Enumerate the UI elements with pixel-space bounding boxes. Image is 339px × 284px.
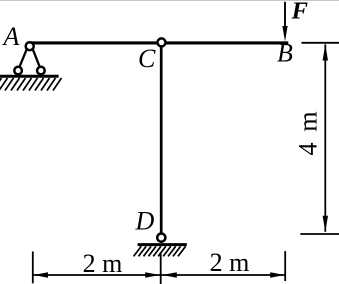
roller circle right at A <box>37 67 45 75</box>
ground hatching at A <box>0 78 62 91</box>
bottom extension tick right <box>284 251 286 281</box>
ground line at D <box>138 243 187 246</box>
svg-text:A: A <box>2 22 20 51</box>
hinge at C <box>158 38 166 46</box>
svg-text:4 m: 4 m <box>293 109 322 155</box>
hinge pin at A <box>26 42 34 50</box>
support link right leg at A <box>33 50 40 67</box>
vertical dimension line 4m <box>324 44 326 231</box>
svg-text:C: C <box>138 44 156 73</box>
svg-text:B: B <box>277 39 293 68</box>
svg-text:2 m: 2 m <box>83 249 123 278</box>
arrowhead up of 4m dimension <box>323 44 328 60</box>
bottom extension tick centre <box>160 252 162 284</box>
dimension extension tick bottom right <box>300 233 339 235</box>
member AB (horizontal beam) <box>30 41 288 44</box>
svg-text:D: D <box>135 206 155 235</box>
force F arrow at B <box>284 2 286 29</box>
support link left leg at A <box>20 50 27 67</box>
hinge pin at D <box>157 234 165 242</box>
bottom extension tick left <box>32 252 34 284</box>
arrowhead left of left 2m dimension <box>34 272 49 277</box>
arrowhead down of 4m dimension <box>323 216 328 232</box>
svg-text:2 m: 2 m <box>210 248 250 277</box>
faint scan border top <box>0 0 339 2</box>
member CD (vertical column) <box>160 44 163 235</box>
horizontal dimension line 2m+2m <box>33 274 285 276</box>
svg-text:F: F <box>290 0 308 25</box>
roller circle left at A <box>14 67 22 75</box>
arrowhead left of right 2m dimension <box>162 272 177 277</box>
ground line at A <box>0 75 59 78</box>
arrowhead right of right 2m dimension <box>270 272 285 277</box>
dimension extension tick top right <box>302 42 339 44</box>
ground hatching at D <box>134 246 186 256</box>
arrowhead right of left 2m dimension <box>145 272 160 277</box>
